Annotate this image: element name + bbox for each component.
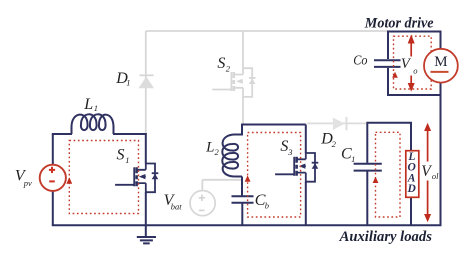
load block [406, 151, 419, 198]
transistor S2 (gray) [212, 68, 255, 97]
loop box 4 (motor dashed) [394, 36, 432, 89]
loop box 1 (S1 dashed) [69, 141, 138, 214]
wire: top rail (gray, D1 node to motor drive box) [146, 30, 388, 32]
wire: D2 branch (gray) [307, 122, 367, 124]
wire: L1-to-node horizontal [113, 133, 147, 135]
wire: S2 drain vertical (gray) [242, 31, 244, 68]
inductor L2 [222, 124, 242, 177]
svg-text:V: V [421, 163, 432, 180]
motor M [424, 49, 458, 83]
svg-text:ol: ol [432, 171, 439, 181]
inductor L1 [72, 114, 114, 134]
arrow Vo (double) [408, 34, 415, 91]
label Vo [401, 56, 418, 76]
auxiliary section box [367, 123, 411, 226]
loop box 3 (aux dashed) [376, 132, 401, 217]
wire: L2 bottom to Cb [241, 177, 243, 196]
svg-text:2: 2 [226, 63, 231, 73]
ground [137, 237, 156, 243]
wire: S3 source to bus [305, 182, 307, 226]
source Vbat (gray) [190, 180, 242, 216]
capacitor Co [374, 60, 401, 67]
svg-text:D: D [407, 183, 417, 195]
loop arrow 2 [245, 175, 251, 181]
arrow Vol (double) [424, 123, 431, 223]
svg-text:S: S [117, 146, 125, 163]
wire: left column Vpv vertical [52, 134, 54, 225]
svg-text:3: 3 [287, 147, 292, 157]
svg-text:1: 1 [125, 155, 129, 165]
loop arrow 1 [66, 177, 72, 183]
wire: Cb to bus [241, 204, 243, 226]
wire: S1 drain vertical [145, 133, 147, 164]
loop arrow 3 [373, 177, 379, 183]
svg-text:1: 1 [94, 103, 98, 113]
wire: outer right vertical [440, 95, 442, 225]
svg-text:S: S [217, 55, 225, 72]
svg-text:Auxiliary loads: Auxiliary loads [339, 229, 432, 245]
loop arrow 4 [392, 72, 398, 78]
svg-text:bat: bat [171, 202, 183, 212]
svg-text:Co: Co [353, 53, 367, 68]
svg-text:o: o [413, 65, 417, 75]
transistor S3 [275, 153, 318, 182]
svg-text:b: b [265, 200, 269, 210]
wire: pv-to-L1 horizontal [52, 133, 72, 135]
wire: S3 drain vertical [305, 125, 307, 154]
loop box 2 (Cb/S3 dashed) [248, 133, 301, 218]
wire: bottom bus [52, 224, 442, 226]
transistor S1 [115, 164, 158, 193]
svg-text:pv: pv [23, 178, 32, 188]
wire: D1 branch vertical (gray) [145, 31, 147, 134]
svg-text:L: L [205, 140, 214, 156]
svg-text:S: S [280, 138, 288, 155]
diode D1 (gray) [139, 75, 155, 88]
motor drive box [388, 32, 441, 96]
label Vol [421, 162, 439, 182]
capacitor Cb [232, 196, 254, 203]
wire: rail L2-to-S3 [242, 124, 305, 126]
source Vpv [40, 165, 66, 191]
svg-text:2: 2 [332, 139, 337, 149]
capacitor C1 [354, 164, 382, 171]
svg-text:1: 1 [126, 78, 130, 88]
svg-text:L: L [83, 96, 93, 113]
wire: S2 source vertical (gray) [242, 97, 244, 125]
svg-text:Motor drive: Motor drive [364, 16, 434, 32]
wire: S1 source to ground [145, 192, 147, 237]
svg-text:M: M [434, 54, 447, 70]
svg-text:1: 1 [351, 154, 355, 164]
diode D2 (gray) [333, 117, 347, 130]
